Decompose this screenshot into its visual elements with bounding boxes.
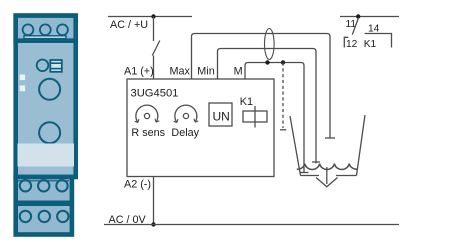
LED window 2 [20,86,25,92]
svg-text:14: 14 [368,23,380,34]
wire from +U to switch [153,17,155,42]
shield wire end tick [280,129,286,131]
potentiometer Delay wiper dot [183,113,188,118]
top terminal block [16,16,76,41]
svg-text:UN: UN [213,110,230,124]
bottom terminal block [16,177,72,235]
selector square [50,60,62,72]
svg-text:A1 (+): A1 (+) [124,66,154,78]
device box U1 3UG4501 [127,79,274,177]
tank bottom with drain gap [301,175,320,177]
potentiometer Delay arc [175,105,197,122]
electrode tip Min [312,161,320,163]
svg-text:M: M [234,66,243,78]
relay module photo [14,16,76,235]
svg-text:3UG4501: 3UG4501 [131,88,179,100]
node junction shield drop [281,60,285,64]
thin line above screws [16,180,69,182]
contact K1 arm 11 [352,18,358,35]
bottom terminal screw B3 [57,211,68,222]
svg-text:Min: Min [197,66,214,78]
bottom terminal screw A3 [56,180,67,191]
svg-text:K1: K1 [240,96,253,108]
wire Min terminal [218,49,317,164]
electrode tip M [300,172,309,174]
node junction cable shield on M [265,60,269,64]
potentiometer R sens wiper dot [144,113,149,118]
drain arrow [326,167,328,184]
node junction A2 on 0V [151,222,155,226]
slot bar [24,36,66,39]
top terminal screw 1 [23,24,34,35]
shield wire dashed [282,63,284,129]
node junction contact 11 [356,14,360,18]
wire Max terminal [192,34,331,139]
module body outline [16,16,76,177]
svg-text:A2 (-): A2 (-) [124,179,151,191]
svg-text:AC / +U: AC / +U [110,19,148,31]
relay coil K1 [243,111,267,122]
UN indicator box [209,103,232,126]
cable ellipse [265,29,275,60]
top terminal screw 2 [40,24,51,35]
wire from switch to A1 [153,56,155,80]
wire M terminal [245,63,304,173]
node junction A1 branch [151,14,155,18]
svg-text:K1: K1 [364,39,377,50]
liquid surface [297,164,357,170]
bottom terminal screw B2 [39,211,50,222]
bottom block divider [14,201,75,207]
svg-text:Max: Max [170,66,191,78]
net AC/0V supply line [104,224,399,226]
tank right wall [357,115,366,176]
big knob 1 [39,79,60,100]
tank left wall [290,116,301,176]
svg-text:12: 12 [346,39,358,50]
svg-text:R sens: R sens [131,127,165,139]
wire to contact 11 [340,16,399,18]
knob small circle [37,60,49,72]
LED window 1 [20,75,25,81]
big knob 2 [39,122,60,143]
bottom terminal screw A2 [38,180,49,191]
electrode tip Max [325,137,335,139]
label plate [18,144,75,167]
terminal 12 stub [344,37,348,47]
net AC/+U supply line [108,16,192,18]
terminal 14 stub [365,34,392,48]
svg-text:11: 11 [346,19,357,30]
bottom terminal screw B1 [20,211,31,222]
svg-text:AC / 0V: AC / 0V [109,214,147,226]
potentiometer R sens arc [136,105,158,122]
svg-text:Delay: Delay [171,127,199,139]
wire A2 to 0V [153,177,155,225]
switch S contact blade [152,41,160,56]
bottom terminal screw A1 [20,180,31,191]
top terminal screw 3 [57,24,68,35]
